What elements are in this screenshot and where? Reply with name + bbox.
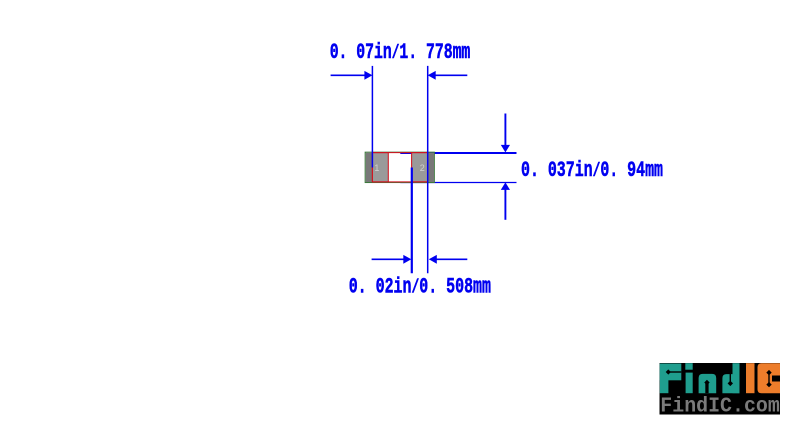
svg-text:0. 07in/1. 778mm: 0. 07in/1. 778mm xyxy=(330,40,471,65)
bottom-right dimension arrow (points left at x=428.8) xyxy=(429,255,468,264)
terminal end cap left (dark gray) xyxy=(366,153,373,182)
top-left dimension arrow (points right at x=372.4) xyxy=(331,71,373,80)
component body outline (red rectangle) xyxy=(372,153,427,182)
logo letter F diamond node and trace xyxy=(666,369,682,374)
extension line at x=412 (pad 2 left edge, to bottom dimension) xyxy=(411,168,413,274)
logo letter n (teal) xyxy=(699,374,717,393)
bottom-left dimension arrow (points right at x=411.3) xyxy=(372,255,412,264)
logo letter I (orange) xyxy=(746,363,755,393)
svg-text:0. 02in/0. 508mm: 0. 02in/0. 508mm xyxy=(349,274,491,299)
logo letter d (teal) xyxy=(722,363,739,393)
extension line at x=372.4 (body left edge) xyxy=(371,66,373,168)
logo letter F (teal) xyxy=(660,364,682,394)
logo letter C (orange) xyxy=(758,363,781,393)
pad 1 (light gray, red outline) xyxy=(372,153,388,182)
logo letter i (teal) xyxy=(685,363,692,393)
svg-text:0. 037in/0. 94mm: 0. 037in/0. 94mm xyxy=(521,158,663,183)
courtyard outline (green rectangle) xyxy=(365,152,434,182)
right upper arrow (points down at y=152.6) xyxy=(501,114,510,153)
svg-text:FindIC.com: FindIC.com xyxy=(660,395,780,418)
extension line at x=427.7 (body right edge, runs to bottom dimension) xyxy=(427,66,429,273)
svg-text:1: 1 xyxy=(374,163,379,173)
svg-text:2: 2 xyxy=(420,163,425,173)
right lower arrow (points up at y=182.4) xyxy=(501,182,510,219)
pad 2 (light gray, red outline) xyxy=(412,153,428,182)
right dimension bottom reference line xyxy=(400,182,516,184)
FindIC logo black background box xyxy=(660,363,781,415)
top-right dimension arrow (points left at x=427.7) xyxy=(428,71,468,80)
right dimension top reference line xyxy=(400,152,516,154)
terminal end cap right (dark gray) xyxy=(428,153,434,182)
